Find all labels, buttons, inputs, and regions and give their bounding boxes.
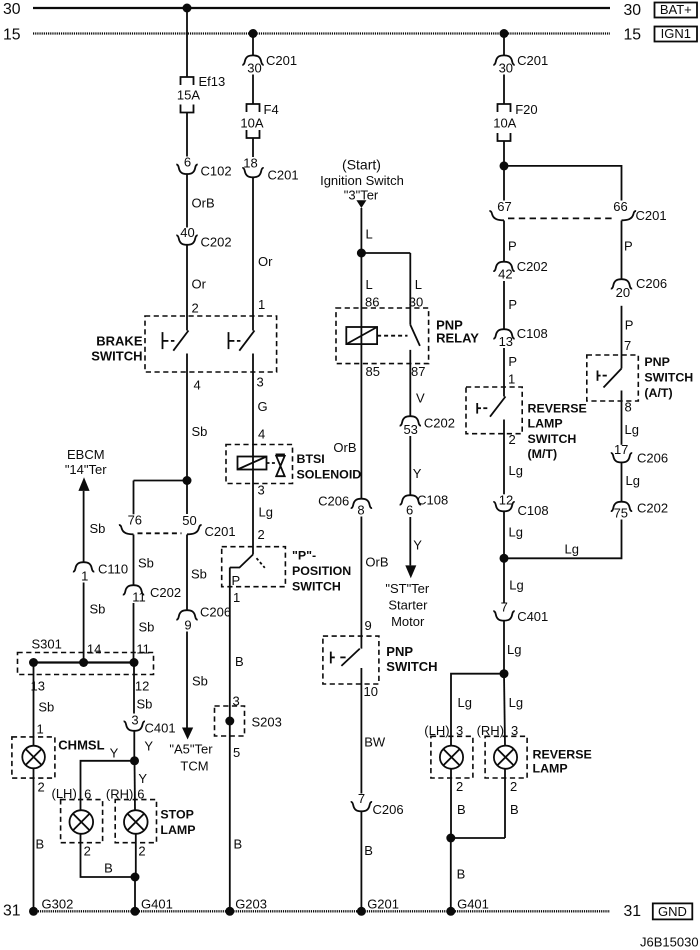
svg-text:C206: C206 <box>373 802 404 817</box>
wire Y S301 to C401-3 <box>134 663 152 714</box>
svg-text:C206: C206 <box>637 450 668 465</box>
BTSI solenoid <box>226 445 361 484</box>
svg-text:SWITCH: SWITCH <box>528 432 577 446</box>
connector C201 pin 50 <box>138 513 236 539</box>
svg-text:20: 20 <box>616 285 630 300</box>
wire Sb C201-76 to C202-11 <box>134 535 154 585</box>
wire B LH stop lamp to joint <box>81 834 136 877</box>
svg-text:Sb: Sb <box>191 567 207 582</box>
wire P-position pin1 to S203 <box>230 568 244 912</box>
wire Y C202-53 to C108-6 <box>410 436 422 495</box>
svg-text:C201: C201 <box>268 168 299 183</box>
svg-text:LAMP: LAMP <box>160 823 195 837</box>
wire Ef13 to C102 <box>186 113 188 157</box>
svg-text:66: 66 <box>613 199 627 214</box>
brake switch contact 1-3 <box>229 331 255 351</box>
svg-text:S301: S301 <box>32 637 62 652</box>
svg-text:LAMP: LAMP <box>533 762 568 776</box>
wire Lg split to LH reverse lamp <box>451 674 504 746</box>
svg-text:F20: F20 <box>515 102 537 117</box>
wire OrB relay 85 to C206-8 <box>333 440 356 455</box>
svg-text:1: 1 <box>233 590 240 605</box>
svg-text:(RH): (RH) <box>477 723 504 738</box>
PNP switch <box>323 636 438 684</box>
junction S301 left <box>29 658 38 667</box>
wire Sb branch to column left <box>134 480 188 482</box>
wire C201-30 to fuse F20 <box>503 75 505 105</box>
svg-text:53: 53 <box>403 422 417 437</box>
wire B S203 to ground <box>233 745 242 852</box>
wire bus15 to C201-30 <box>252 34 254 56</box>
svg-text:PNP: PNP <box>386 644 413 659</box>
PNP switch (A/T) <box>587 355 694 401</box>
junction stop lamp grounds <box>131 873 140 882</box>
svg-text:REVERSE: REVERSE <box>533 748 592 762</box>
svg-text:Y: Y <box>413 538 422 553</box>
svg-text:2: 2 <box>510 779 517 794</box>
svg-text:C202: C202 <box>201 234 232 249</box>
splice S203 <box>215 706 282 736</box>
stop lamp RH <box>106 786 196 842</box>
junction Sb node <box>183 476 192 485</box>
wire Lg C108-12 to A/T joint <box>504 512 523 559</box>
svg-text:Or: Or <box>258 254 273 269</box>
connector C110 pin 1 <box>73 562 128 584</box>
svg-text:C206: C206 <box>318 494 349 509</box>
svg-text:Sb: Sb <box>90 602 106 617</box>
svg-text:3: 3 <box>257 375 264 390</box>
ground G401 <box>131 896 173 916</box>
wire Y split to RH stop lamp <box>135 761 148 811</box>
svg-text:3: 3 <box>131 713 138 728</box>
wire B to ground G401 <box>134 877 136 911</box>
svg-text:76: 76 <box>128 513 142 528</box>
svg-text:1: 1 <box>37 722 44 737</box>
wire Lg C401-7 to lamp split <box>504 621 521 674</box>
svg-text:SWITCH: SWITCH <box>292 580 341 594</box>
svg-text:67: 67 <box>497 199 511 214</box>
svg-text:C202: C202 <box>517 259 548 274</box>
arrow to EBCM "14"Ter <box>65 447 107 491</box>
wire P C202-42 to C108-13 <box>504 281 517 329</box>
PNP relay link <box>377 335 407 337</box>
svg-text:2: 2 <box>258 527 265 542</box>
svg-text:85: 85 <box>366 364 380 379</box>
svg-text:(Start): (Start) <box>342 157 381 173</box>
connector C201 pin 66 <box>508 199 667 223</box>
svg-text:RELAY: RELAY <box>436 331 479 346</box>
wire B RH reverse lamp to joint <box>505 769 519 838</box>
wire Lg split to RH reverse lamp <box>504 674 523 746</box>
svg-text:GND: GND <box>658 904 687 919</box>
svg-text:Lg: Lg <box>509 695 523 710</box>
svg-text:12: 12 <box>499 492 513 507</box>
svg-text:C108: C108 <box>417 493 448 508</box>
connector C108 pin 12 <box>493 492 548 517</box>
svg-text:14: 14 <box>87 642 101 657</box>
connector C202 pin 42 <box>493 259 547 282</box>
svg-text:Sb: Sb <box>38 700 54 715</box>
junction on bus 15 <box>249 29 258 38</box>
svg-text:4: 4 <box>194 378 201 393</box>
svg-text:2: 2 <box>84 844 91 859</box>
svg-text:10: 10 <box>364 684 378 699</box>
svg-text:9: 9 <box>184 618 191 633</box>
svg-text:11: 11 <box>136 642 150 657</box>
svg-text:B: B <box>104 861 113 876</box>
svg-text:L: L <box>415 277 422 292</box>
junction stop lamp split <box>130 756 139 765</box>
svg-text:4: 4 <box>258 427 265 442</box>
node BAT+ <box>655 2 698 17</box>
svg-text:"3"Ter: "3"Ter <box>344 187 379 202</box>
PNP relay contact <box>410 253 420 416</box>
connector C102 pin 6 <box>176 154 231 178</box>
reverse lamp LH <box>424 723 473 778</box>
svg-text:B: B <box>457 867 466 882</box>
svg-text:Lg: Lg <box>509 578 523 593</box>
PNP relay <box>336 308 479 364</box>
svg-text:G203: G203 <box>235 896 267 911</box>
ground G302 <box>29 896 73 916</box>
svg-text:Starter: Starter <box>388 598 428 613</box>
connector C401 pin 3 <box>124 713 176 736</box>
junction S301 mid <box>79 658 88 667</box>
wire Sb C201-50 to C206-9 <box>187 535 207 610</box>
wire B to ground G401 right <box>451 838 465 911</box>
svg-text:G: G <box>258 399 268 414</box>
wire Lg joint to C401-7 <box>504 558 524 603</box>
connector C206 pin 8 <box>318 494 372 518</box>
svg-text:9: 9 <box>365 618 372 633</box>
connector C202 pin 40 <box>176 225 231 249</box>
svg-text:2: 2 <box>192 301 199 316</box>
junction M/T and A/T <box>500 554 509 563</box>
svg-text:Lg: Lg <box>565 541 579 556</box>
svg-text:BW: BW <box>364 735 386 750</box>
svg-text:LAMP: LAMP <box>528 417 563 431</box>
svg-text:Y: Y <box>138 771 147 786</box>
"P"-position switch <box>222 547 352 594</box>
wire P C201-66 to C206-20 <box>622 221 633 280</box>
svg-text:30: 30 <box>3 1 21 18</box>
svg-text:(A/T): (A/T) <box>644 386 672 400</box>
svg-text:(LH): (LH) <box>52 786 77 801</box>
wire L ignition to relay coil <box>361 208 379 498</box>
svg-text:P: P <box>625 318 634 333</box>
svg-text:OrB: OrB <box>365 555 388 570</box>
svg-text:7: 7 <box>501 599 508 614</box>
svg-text:G401: G401 <box>141 896 173 911</box>
wire V relay 87 to C202-53 <box>416 391 425 406</box>
svg-text:SWITCH: SWITCH <box>386 659 437 674</box>
svg-text:Ef13: Ef13 <box>199 74 226 89</box>
reverse lamp RH <box>477 723 592 778</box>
ground G203 <box>225 896 267 916</box>
svg-text:TCM: TCM <box>180 759 208 774</box>
svg-text:P: P <box>508 238 517 253</box>
wire Lg PNP AT pin8 to C206-17 <box>622 391 639 445</box>
ground G401 right <box>446 896 489 916</box>
bus 15 (ignition feed) <box>3 27 641 44</box>
connector C108 pin 13 <box>493 326 547 349</box>
wire OrB C206-8 to PNP switch pin 9 <box>361 517 388 649</box>
svg-text:B: B <box>234 837 243 852</box>
fuse Ef13 15A <box>177 74 225 113</box>
wire Sb EBCM to C110-1 <box>84 491 106 562</box>
wire Sb C110-1 to S301 <box>84 583 106 663</box>
svg-text:PNP: PNP <box>644 355 669 369</box>
wire Lg C202-75 to M/T joint <box>504 520 622 559</box>
wire Sb C202-11 to S301 <box>134 603 155 663</box>
wire BW PNP switch pin10 to C206-7 <box>361 668 385 794</box>
svg-text:C110: C110 <box>98 562 128 577</box>
wire OrB C102 to C202 <box>187 174 215 227</box>
wire L to relay contact 30 <box>361 253 423 309</box>
svg-text:C201: C201 <box>517 53 548 68</box>
svg-text:J6B15030: J6B15030 <box>640 934 699 949</box>
connector C206 pin 17 <box>611 442 668 465</box>
wire Y C401-3 to stop lamp split <box>134 731 153 761</box>
svg-text:SWITCH: SWITCH <box>644 371 693 385</box>
wire B CHMSL to ground G302 <box>34 768 45 911</box>
wire B LH reverse lamp to joint <box>451 769 505 838</box>
svg-text:30: 30 <box>624 2 642 19</box>
svg-text:30: 30 <box>499 60 513 75</box>
wire F20 to split <box>503 141 505 166</box>
svg-text:BRAKE: BRAKE <box>96 334 143 349</box>
svg-text:10A: 10A <box>240 116 263 131</box>
svg-text:31: 31 <box>624 903 642 920</box>
svg-text:1: 1 <box>81 569 88 584</box>
svg-text:POSITION: POSITION <box>292 564 351 578</box>
svg-text:CHMSL: CHMSL <box>58 737 104 752</box>
svg-text:13: 13 <box>499 334 513 349</box>
connector C401 pin 7 <box>493 599 548 624</box>
wire P C206-20 to PNP switch AT pin 7 <box>622 306 634 369</box>
wire F4 to C201-18 <box>252 138 254 157</box>
lamp CHMSL <box>12 737 105 778</box>
arrow from ignition switch "3"Ter (Start) <box>320 157 404 209</box>
svg-text:B: B <box>364 843 373 858</box>
svg-text:15A: 15A <box>177 88 200 103</box>
ground bus 31 <box>3 903 641 920</box>
junction S301 right <box>130 658 139 667</box>
connector C201 pin 30 <box>242 53 297 76</box>
connector C201 pin 18 <box>242 156 298 183</box>
svg-text:Y: Y <box>144 739 153 754</box>
svg-text:Sb: Sb <box>139 620 155 635</box>
svg-text:18: 18 <box>243 156 257 171</box>
wire Or C201-18 to brake switch pin 1 <box>253 178 273 331</box>
svg-text:Y: Y <box>110 746 119 761</box>
svg-text:STOP: STOP <box>160 807 194 821</box>
wire Lg BTSI pin3 to P-position switch pin 2 <box>258 483 273 543</box>
svg-text:P: P <box>232 573 241 588</box>
svg-text:"14"Ter: "14"Ter <box>65 462 107 477</box>
svg-text:1: 1 <box>258 297 265 312</box>
svg-text:S203: S203 <box>252 715 282 730</box>
svg-text:Sb: Sb <box>138 556 154 571</box>
svg-text:6: 6 <box>184 154 191 169</box>
svg-text:12: 12 <box>135 679 149 694</box>
svg-text:BTSI: BTSI <box>297 452 325 466</box>
arrow to TCM <box>169 728 213 774</box>
svg-text:Sb: Sb <box>137 697 153 712</box>
svg-text:Lg: Lg <box>507 642 521 657</box>
wire P C108-13 to reverse lamp switch pin 1 <box>504 348 517 397</box>
svg-text:B: B <box>235 654 244 669</box>
svg-text:C201: C201 <box>266 53 297 68</box>
arrow to "ST"Ter starter motor <box>385 565 430 629</box>
connector C206 pin 7 <box>351 791 404 817</box>
reverse lamp switch (M/T) <box>466 387 587 461</box>
svg-text:C206: C206 <box>636 276 667 291</box>
PNP relay coil <box>346 327 377 344</box>
svg-text:F4: F4 <box>264 102 279 117</box>
svg-text:C202: C202 <box>150 585 181 600</box>
svg-text:L: L <box>366 277 373 292</box>
svg-text:B: B <box>510 802 519 817</box>
svg-text:B: B <box>36 837 45 852</box>
svg-text:Lg: Lg <box>458 695 472 710</box>
svg-text:42: 42 <box>498 267 512 282</box>
svg-text:B: B <box>457 802 466 817</box>
connector C206 pin 20 <box>611 276 667 300</box>
connector C201 pin 67 <box>489 199 511 220</box>
svg-text:40: 40 <box>180 225 194 240</box>
svg-text:2: 2 <box>38 780 45 795</box>
svg-text:15: 15 <box>624 27 642 44</box>
svg-text:86: 86 <box>365 294 379 309</box>
svg-text:Motor: Motor <box>391 614 425 629</box>
svg-text:OrB: OrB <box>192 196 215 211</box>
connector C201 pin 30 right <box>493 53 548 76</box>
svg-text:SWITCH: SWITCH <box>91 349 142 364</box>
svg-text:EBCM: EBCM <box>67 447 105 462</box>
svg-text:Or: Or <box>192 277 207 292</box>
drawing number J6B15030 <box>640 934 699 949</box>
connector C202 pin 11 <box>123 585 181 604</box>
junction reverse lamp grounds <box>446 834 455 843</box>
wire split to M/T branch <box>503 166 505 201</box>
wire Y C108-6 to starter <box>410 517 422 565</box>
svg-text:SOLENOID: SOLENOID <box>297 468 362 482</box>
svg-text:5: 5 <box>233 745 240 760</box>
svg-text:"A5"Ter: "A5"Ter <box>169 742 213 757</box>
brake switch <box>91 316 276 372</box>
svg-text:8: 8 <box>625 400 632 415</box>
wire P C201-67 to C202-42 <box>504 221 517 262</box>
svg-text:Lg: Lg <box>626 473 640 488</box>
svg-text:7: 7 <box>624 338 631 353</box>
svg-text:V: V <box>416 391 425 406</box>
splice S301 <box>18 637 154 694</box>
svg-text:"P"-: "P"- <box>292 549 316 563</box>
wire Sb C206-9 to TCM <box>187 632 208 728</box>
wire Lg C206-17 to C202-75 <box>622 463 640 502</box>
svg-text:8: 8 <box>357 503 364 518</box>
relay pin labels <box>366 364 426 379</box>
connector C108 pin 6 <box>400 493 449 518</box>
wire Sb S301 to CHMSL <box>34 663 55 746</box>
svg-text:Lg: Lg <box>509 463 523 478</box>
svg-text:"ST"Ter: "ST"Ter <box>385 581 430 596</box>
wire Sb brake pin4 to junction <box>187 354 207 481</box>
svg-text:C201: C201 <box>205 524 236 539</box>
ground G201 <box>357 896 399 916</box>
svg-text:C108: C108 <box>517 326 548 341</box>
wire Or C202-40 to brake switch pin 2 <box>187 245 207 331</box>
junction reverse lamp split <box>500 669 509 678</box>
svg-text:(M/T): (M/T) <box>528 447 558 461</box>
svg-text:IGN1: IGN1 <box>661 26 691 41</box>
svg-text:17: 17 <box>614 442 628 457</box>
connector C202 pin 53 <box>400 416 455 438</box>
junction on bus 30 <box>183 4 192 13</box>
svg-text:C201: C201 <box>636 208 667 223</box>
wire B C206-7 to ground <box>361 812 372 912</box>
svg-text:C108: C108 <box>518 503 549 518</box>
svg-text:Lg: Lg <box>509 525 523 540</box>
svg-text:50: 50 <box>182 513 196 528</box>
svg-text:30: 30 <box>247 60 261 75</box>
svg-text:G401: G401 <box>457 896 489 911</box>
junction L split <box>357 249 366 258</box>
svg-text:Sb: Sb <box>192 674 208 689</box>
svg-text:Sb: Sb <box>192 424 208 439</box>
svg-text:Sb: Sb <box>90 521 106 536</box>
svg-text:2: 2 <box>138 844 145 859</box>
connector C206 pin 9 <box>176 605 231 633</box>
wire B RH stop lamp to joint <box>136 834 146 877</box>
wire junction to C201-50 <box>186 481 188 515</box>
svg-text:Lg: Lg <box>259 505 273 520</box>
junction on bus 15 right <box>500 29 509 38</box>
svg-text:P: P <box>508 354 517 369</box>
bus 30 (battery feed) <box>3 1 641 19</box>
connector C201 pin 76 <box>119 513 142 535</box>
svg-text:C202: C202 <box>637 500 668 515</box>
svg-text:Ignition Switch: Ignition Switch <box>320 173 404 188</box>
fuse F4 10A <box>240 102 278 138</box>
svg-text:2: 2 <box>456 779 463 794</box>
junction F20 output <box>500 161 509 170</box>
svg-text:10A: 10A <box>493 115 516 130</box>
svg-text:C401: C401 <box>517 609 548 624</box>
wire Y split to LH stop lamp <box>81 746 135 811</box>
svg-text:REVERSE: REVERSE <box>528 402 587 416</box>
svg-text:(LH): (LH) <box>424 723 449 738</box>
svg-text:C102: C102 <box>201 164 232 179</box>
svg-text:Lg: Lg <box>625 422 639 437</box>
node GND <box>653 903 693 919</box>
svg-text:31: 31 <box>3 903 21 920</box>
fuse F20 10A <box>493 102 537 141</box>
svg-text:G201: G201 <box>367 896 399 911</box>
stop lamp LH <box>52 786 103 843</box>
svg-text:6: 6 <box>406 503 413 518</box>
svg-text:11: 11 <box>132 589 146 604</box>
svg-text:C206: C206 <box>200 605 231 620</box>
wire split to A/T branch <box>504 166 622 201</box>
svg-text:C202: C202 <box>424 416 455 431</box>
connector C202 pin 75 <box>611 500 668 520</box>
wire G brake pin3 to BTSI pin4 <box>253 354 268 555</box>
svg-text:7: 7 <box>358 791 365 806</box>
wire Sb branch down to C201-76 <box>133 481 135 515</box>
svg-text:2: 2 <box>509 432 516 447</box>
